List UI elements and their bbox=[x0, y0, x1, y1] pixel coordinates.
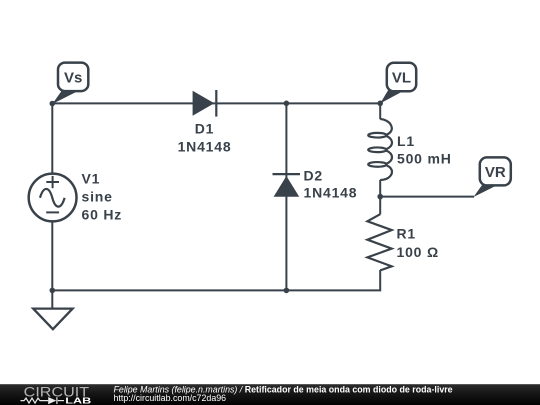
svg-text:V1: V1 bbox=[82, 170, 101, 186]
svg-text:VR: VR bbox=[485, 164, 506, 181]
ground bbox=[33, 290, 72, 329]
svg-text:LAB: LAB bbox=[65, 395, 91, 405]
node D2 bottom junction bbox=[284, 288, 290, 294]
inductor L1 bbox=[368, 103, 392, 196]
svg-text:D2: D2 bbox=[304, 167, 324, 183]
node VL junction bbox=[377, 101, 383, 107]
svg-text:L1: L1 bbox=[397, 133, 415, 149]
wire left vertical lower (V1 bottom to ground node) bbox=[51, 221, 53, 290]
svg-text:100 Ω: 100 Ω bbox=[397, 244, 439, 260]
svg-text:60 Hz: 60 Hz bbox=[82, 206, 123, 222]
node label VR bbox=[474, 157, 511, 197]
node Vs junction bbox=[50, 101, 56, 107]
svg-text:500 mH: 500 mH bbox=[397, 151, 452, 167]
voltage source V1 bbox=[29, 174, 77, 222]
svg-text:Vs: Vs bbox=[64, 69, 82, 86]
node D1-D2 junction bbox=[284, 101, 290, 107]
svg-text:D1: D1 bbox=[195, 121, 215, 137]
svg-text:R1: R1 bbox=[397, 225, 417, 241]
footer logo wire with resistor and diode bbox=[21, 397, 65, 404]
diode D1 bbox=[193, 90, 217, 117]
svg-text:sine: sine bbox=[82, 188, 113, 204]
node ground junction bbox=[50, 288, 56, 294]
node label VL bbox=[380, 63, 416, 104]
diode D2 bbox=[273, 174, 301, 197]
svg-text:1N4148: 1N4148 bbox=[304, 185, 358, 201]
wire VR tap bbox=[380, 196, 474, 198]
svg-text:1N4148: 1N4148 bbox=[178, 138, 232, 154]
node L1-R1 junction bbox=[377, 194, 383, 200]
svg-text:VL: VL bbox=[392, 70, 411, 87]
wire left vertical upper (Vs node to V1 top) bbox=[51, 103, 53, 174]
node label Vs bbox=[52, 63, 88, 104]
wire bottom rail bbox=[52, 270, 380, 290]
wire D2 branch vertical bbox=[285, 103, 287, 290]
wire top rail Vs to VL bbox=[52, 102, 380, 104]
footer bar bbox=[0, 384, 540, 405]
svg-text:http://circuitlab.com/c72da96: http://circuitlab.com/c72da96 bbox=[114, 393, 227, 403]
resistor R1 bbox=[367, 197, 391, 271]
